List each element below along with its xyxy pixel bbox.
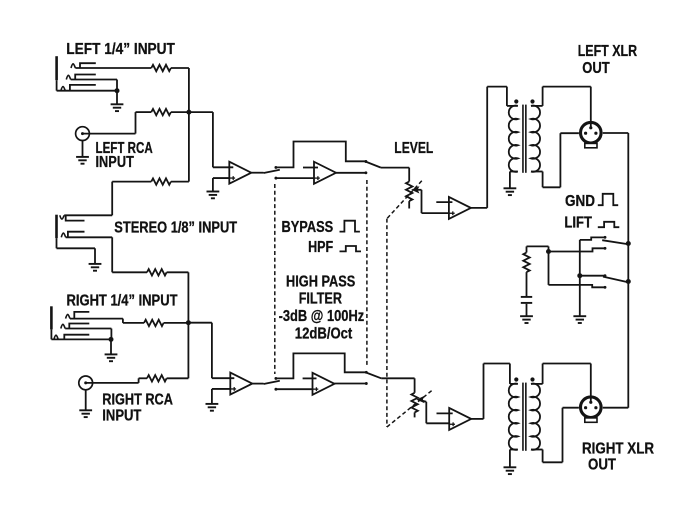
svg-text:BYPASS: BYPASS bbox=[282, 219, 334, 236]
svg-text:OUT: OUT bbox=[582, 60, 610, 77]
svg-text:HPF: HPF bbox=[308, 239, 333, 256]
svg-text:STEREO 1/8” INPUT: STEREO 1/8” INPUT bbox=[114, 220, 237, 237]
svg-text:OUT: OUT bbox=[588, 457, 616, 474]
svg-text:RIGHT 1/4” INPUT: RIGHT 1/4” INPUT bbox=[67, 293, 178, 310]
svg-text:LEVEL: LEVEL bbox=[394, 140, 433, 157]
svg-text:12dB/Oct: 12dB/Oct bbox=[295, 325, 353, 342]
svg-text:LEFT 1/4” INPUT: LEFT 1/4” INPUT bbox=[66, 41, 175, 58]
svg-text:RIGHT RCA: RIGHT RCA bbox=[102, 392, 173, 409]
svg-text:LIFT: LIFT bbox=[564, 214, 592, 231]
svg-text:FILTER: FILTER bbox=[299, 291, 343, 308]
svg-text:HIGH PASS: HIGH PASS bbox=[286, 273, 356, 290]
svg-text:INPUT: INPUT bbox=[102, 407, 141, 424]
svg-text:RIGHT XLR: RIGHT XLR bbox=[582, 441, 654, 458]
svg-text:-3dB @ 100Hz: -3dB @ 100Hz bbox=[279, 308, 365, 325]
svg-text:INPUT: INPUT bbox=[96, 154, 135, 171]
svg-text:LEFT XLR: LEFT XLR bbox=[578, 43, 638, 60]
svg-text:GND: GND bbox=[565, 193, 595, 210]
